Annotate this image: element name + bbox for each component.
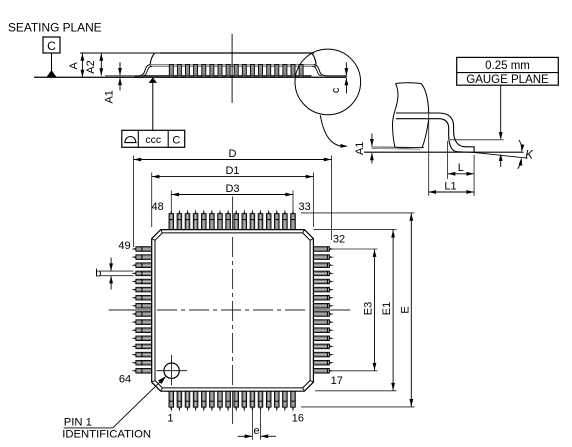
vertical centerline (232, 197, 234, 425)
svg-text:b: b (95, 267, 101, 279)
side view body right edge (311, 53, 316, 65)
svg-text:E1: E1 (381, 302, 393, 315)
e extension lines (252, 409, 260, 440)
bottom pins row (1-16) (169, 391, 295, 412)
svg-text:e: e (254, 425, 260, 437)
pin label 49 (118, 240, 130, 252)
svg-text:PIN 1: PIN 1 (64, 417, 92, 429)
top pins row (48-33) (169, 209, 295, 229)
vertical centerline inner (232, 237, 234, 386)
dimension A (68, 53, 85, 77)
detail seating plane line (364, 151, 524, 153)
pin label 17 (331, 375, 343, 387)
svg-text:17: 17 (331, 375, 343, 387)
dimension L1 (428, 180, 474, 194)
svg-text:SEATING PLANE: SEATING PLANE (8, 21, 102, 35)
dimension b (95, 258, 113, 290)
pin 1 identification leader (64, 376, 167, 428)
lead section body (393, 83, 429, 148)
svg-text:49: 49 (118, 240, 130, 252)
pin label 48 (152, 201, 164, 213)
svg-text:E3: E3 (363, 302, 375, 315)
datum C triangle (46, 70, 56, 77)
pin label 64 (119, 373, 131, 385)
svg-text:A2: A2 (85, 60, 97, 73)
detail circle (295, 49, 361, 115)
dimension A1 side view (104, 62, 122, 104)
side view centerline (231, 34, 233, 103)
corner bevel lines (152, 230, 314, 392)
svg-text:D3: D3 (225, 183, 239, 195)
A A2 top extension line (80, 52, 162, 54)
lead section lead (396, 113, 474, 152)
svg-text:A: A (68, 61, 80, 69)
D1 extension lines (152, 173, 314, 228)
svg-text:C: C (172, 134, 180, 146)
svg-text:L1: L1 (444, 180, 456, 192)
side view body left edge (150, 53, 155, 65)
svg-text:A1: A1 (354, 142, 366, 155)
label SEATING PLANE (8, 21, 102, 35)
L1 extension line (428, 113, 430, 197)
svg-text:c: c (330, 87, 342, 93)
L extension lines (448, 141, 475, 196)
dimension A2 (85, 53, 103, 75)
dimension A1 detail (354, 134, 374, 164)
svg-text:E: E (399, 306, 411, 313)
svg-text:64: 64 (119, 373, 131, 385)
svg-text:D: D (229, 148, 237, 160)
dimension D1 (152, 165, 314, 178)
pin 1 index circle (156, 355, 187, 386)
detail leader arc (320, 115, 348, 148)
pin label 1 (167, 413, 173, 425)
flatness tolerance frame (122, 130, 185, 147)
svg-text:32: 32 (333, 233, 345, 245)
dimension E (399, 213, 413, 407)
seating datum triangle (149, 77, 157, 130)
svg-text:16: 16 (292, 413, 304, 425)
side view left lead (135, 65, 152, 78)
D extension lines (134, 156, 332, 248)
gauge plane line (450, 139, 504, 141)
dimension D (134, 148, 332, 161)
svg-text:D1: D1 (225, 165, 239, 177)
side view right lead (312, 65, 346, 78)
body bottom line right detail (372, 147, 425, 149)
pin label 33 (298, 201, 310, 213)
pin 1 identification label (62, 417, 151, 441)
svg-text:ccc: ccc (145, 134, 161, 146)
dimension E1 (381, 230, 395, 391)
b extension lines (100, 271, 134, 276)
pin label 32 (333, 233, 345, 245)
side view lead shoulder band (150, 64, 316, 66)
svg-text:A1: A1 (104, 90, 116, 103)
horizontal centerline inner (157, 309, 308, 311)
datum C symbol box (43, 37, 60, 53)
E1 extension lines (313, 230, 396, 391)
svg-text:33: 33 (298, 201, 310, 213)
dimension E3 (363, 249, 377, 370)
left pins row (49-64) (131, 247, 152, 373)
dimension e (238, 425, 276, 438)
svg-text:C: C (47, 39, 56, 53)
svg-text:L: L (458, 162, 464, 174)
package body outer outline (152, 230, 314, 392)
seating plane line (34, 76, 346, 78)
horizontal centerline (109, 309, 351, 311)
dimension c (330, 63, 348, 94)
side view body bottom line (144, 75, 312, 77)
svg-text:1: 1 (167, 413, 173, 425)
svg-text:IDENTIFICATION: IDENTIFICATION (62, 429, 151, 441)
dimension D3 (171, 183, 293, 196)
side view lead bars row (169, 65, 303, 78)
gauge plane leader (499, 85, 503, 167)
dimension L (448, 162, 475, 176)
body bottom extension for A1 (105, 75, 144, 77)
pin label 16 (292, 413, 304, 425)
svg-text:K: K (525, 149, 534, 161)
package body inner outline (155, 233, 310, 388)
D3 extension lines (171, 191, 293, 212)
dimension K (518, 140, 535, 169)
right pins row (32-17) (313, 247, 334, 373)
svg-text:0.25 mm: 0.25 mm (485, 60, 530, 72)
E extension lines (301, 213, 415, 407)
svg-text:GAUGE PLANE: GAUGE PLANE (466, 74, 549, 86)
gauge plane label box (457, 57, 559, 85)
side view body top line (160, 52, 314, 54)
svg-text:48: 48 (152, 201, 164, 213)
K slant line (456, 152, 528, 159)
datum C leader line (51, 53, 53, 72)
E3 extension lines (332, 249, 378, 371)
